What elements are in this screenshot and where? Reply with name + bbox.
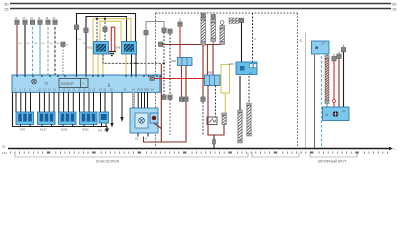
shielded capsule by switch <box>222 113 227 125</box>
dashed wire to sender unit <box>252 13 254 62</box>
red wire unit A down <box>181 66 183 98</box>
dashed wire through knock box1 <box>97 19 105 42</box>
svg-text:M: M <box>326 113 329 117</box>
wire black short <box>84 16 127 75</box>
wires ECU to coil 4 <box>80 92 94 112</box>
fuse links <box>229 18 244 23</box>
ground G1 <box>108 52 116 56</box>
wires ECU to coil 1 <box>16 92 31 112</box>
svg-text:DISRUP: DISRUP <box>61 82 75 86</box>
svg-text:N127: N127 <box>40 128 47 132</box>
svg-text:T61: T61 <box>98 129 103 133</box>
svg-text:N80: N80 <box>171 59 177 63</box>
harness bracket left <box>15 153 248 158</box>
braided wire pair to distributor <box>132 92 134 108</box>
sender unit G40 <box>229 62 258 75</box>
shielded cable bar 3 <box>220 21 225 45</box>
unit B (blue segmented) <box>205 71 221 86</box>
wire gauge labels <box>18 39 86 45</box>
svg-text:DOHC EDITION: DOHC EDITION <box>96 160 120 164</box>
knock sensor G66 <box>115 42 137 55</box>
yellow supply loop inner <box>100 21 121 41</box>
wires ECU to coil 3 <box>59 92 74 112</box>
svg-text:N291: N291 <box>61 128 68 132</box>
bus 15 <box>4 7 397 12</box>
connector on maroon <box>184 97 188 101</box>
dashed wire unit B to switch <box>215 86 217 118</box>
wires ECU to coil 2 <box>40 92 54 112</box>
ignition coil N292 <box>80 112 98 132</box>
knock sensor G61 <box>87 42 109 55</box>
wire ECU ground arrow 2 <box>110 92 113 127</box>
yellow wires below knock boxes <box>98 54 126 75</box>
connector on loop left leg <box>144 31 148 35</box>
svg-text:15: 15 <box>4 7 9 12</box>
svg-text:N70: N70 <box>20 128 26 132</box>
svg-text:O2: O2 <box>135 137 139 141</box>
maroon wire to pump <box>337 51 341 107</box>
ground bus under coils <box>13 92 108 128</box>
maroon drop from bar1 <box>201 45 205 135</box>
svg-text:G6: G6 <box>342 109 346 113</box>
black drop to rail <box>213 135 216 148</box>
track number ticks <box>10 152 388 154</box>
black wire to sender unit <box>241 23 243 62</box>
harness bracket right <box>310 153 357 158</box>
wires ECU to distributor <box>138 92 147 108</box>
connector with red tail <box>178 18 182 58</box>
wire T17/2 black <box>23 17 28 75</box>
svg-text:J17: J17 <box>321 42 326 46</box>
svg-text:МОТОРНЫЙ ЖГУТ: МОТОРНЫЙ ЖГУТ <box>318 160 347 164</box>
wires ECU to N152 <box>101 92 106 112</box>
ECU bottom pin numbers <box>0 0 1 1</box>
component N152 <box>98 112 109 133</box>
dashed drop to shielded bar <box>248 76 250 103</box>
harness bracket middle <box>252 153 299 158</box>
svg-text:G61: G61 <box>87 46 93 50</box>
bus 30 <box>4 2 397 7</box>
yellow twisted loop <box>221 65 230 116</box>
maroon wire distributor to right <box>144 64 187 142</box>
wire T17/4 blue <box>38 17 43 75</box>
wire T17/1 maroon <box>15 17 20 75</box>
svg-text:143: 143 <box>2 151 7 155</box>
rail 31 <box>2 145 396 156</box>
wire T17/5 gray-white dashed <box>46 17 51 75</box>
maroon loop under switch <box>208 86 224 136</box>
dashed enclosure <box>156 13 298 147</box>
red feed horizontal <box>150 45 208 81</box>
red wire with inline connector <box>332 54 336 108</box>
shielded cable bar 2 <box>211 15 216 46</box>
shielded bar bottom right <box>247 103 252 136</box>
fuel pump G6 <box>323 107 350 121</box>
svg-text:15: 15 <box>392 7 397 12</box>
maroon drop from bar2 to unit B <box>212 45 214 76</box>
connector on loop right leg <box>162 28 166 32</box>
svg-text:J496: J496 <box>206 71 213 75</box>
kickdown switch <box>207 117 217 125</box>
shielded bar bottom left <box>238 110 243 143</box>
maroon header under shield bars <box>159 42 223 46</box>
ignition coil N70 <box>16 112 34 132</box>
black drop to shielded bar <box>239 76 241 110</box>
yellow supply loop outer <box>93 19 131 75</box>
maroon wire up to unit A <box>185 66 187 98</box>
connector T2e <box>61 42 69 75</box>
relay J17 <box>312 41 330 56</box>
wire black L to knock box 2 <box>74 13 135 75</box>
ECU J220 Motronic <box>12 75 160 92</box>
wire T17/3 blue-white dashed <box>30 17 35 75</box>
svg-text:31: 31 <box>2 145 6 149</box>
ignition coil N127 <box>38 112 56 132</box>
harness divider line <box>305 33 307 148</box>
red hairpin to ground <box>111 27 115 51</box>
blue-white dashed wire to rail <box>321 54 323 148</box>
svg-text:G66: G66 <box>115 46 121 50</box>
shield drain wire horizontal <box>103 54 165 64</box>
ECU top pin marks <box>16 75 161 77</box>
svg-text:25: 25 <box>45 82 49 86</box>
output unit A (blue segmented) <box>171 58 192 66</box>
shielded cable to pump <box>325 54 329 107</box>
gray sense loop <box>146 22 164 76</box>
black wire to pump <box>341 45 345 108</box>
dashed harness wire b <box>168 29 172 135</box>
wire T17/6 black-white dashed <box>53 17 58 75</box>
wire ECU ground arrow <box>120 92 123 122</box>
junction dots on yellow <box>96 18 98 20</box>
ignition coil N291 <box>59 112 77 132</box>
svg-text:N292: N292 <box>82 128 89 132</box>
svg-text:N1: N1 <box>104 129 108 133</box>
wires black below knock box2 <box>131 54 133 75</box>
dashed harness wire a <box>162 32 166 99</box>
svg-text:G40: G40 <box>229 62 235 66</box>
distributor unit <box>130 108 158 141</box>
gray wire to rail <box>314 54 316 148</box>
shielded cable bar 1 <box>201 13 206 45</box>
